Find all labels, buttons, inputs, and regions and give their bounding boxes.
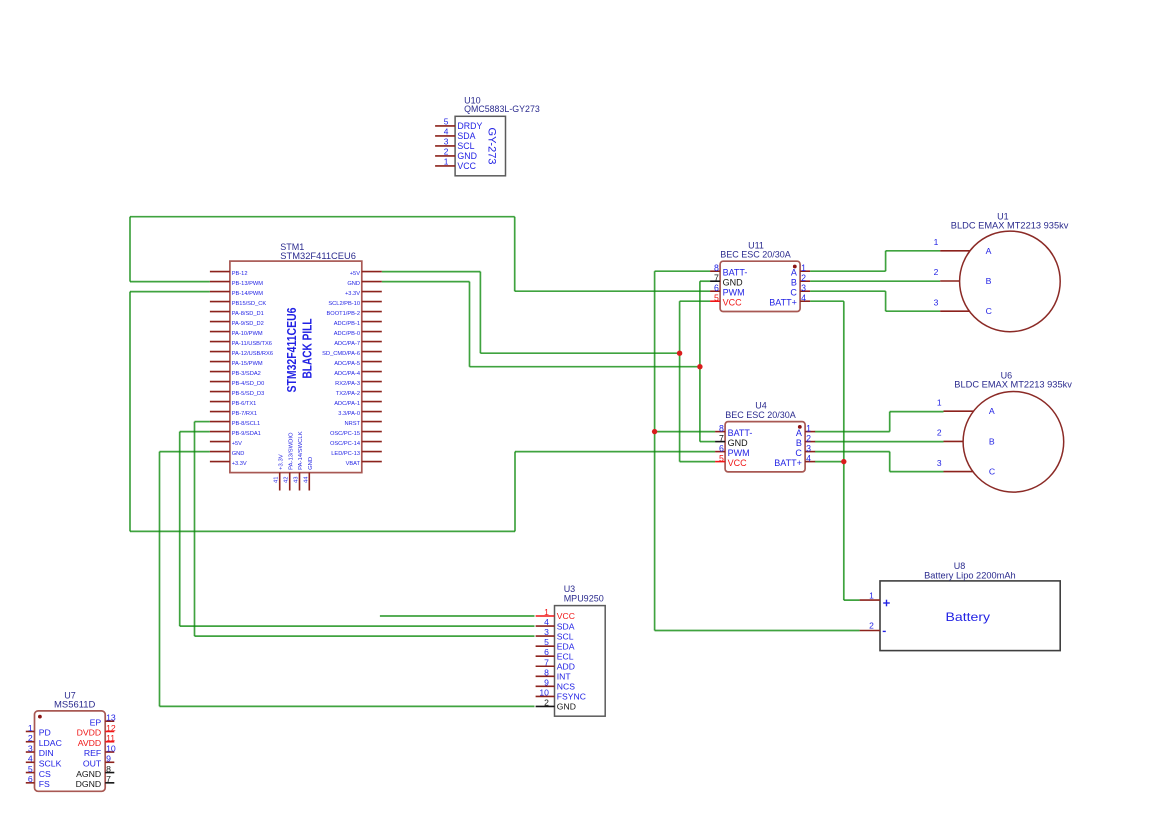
svg-text:DRDY: DRDY: [457, 121, 482, 131]
svg-text:5: 5: [714, 293, 719, 303]
svg-text:OUT: OUT: [83, 758, 102, 768]
svg-text:AVDD: AVDD: [78, 738, 102, 748]
svg-text:6: 6: [28, 774, 33, 784]
svg-text:2: 2: [28, 733, 33, 743]
svg-text:13: 13: [106, 713, 116, 723]
svg-text:1: 1: [869, 591, 874, 601]
svg-text:ADC/PB-0: ADC/PB-0: [334, 331, 360, 337]
svg-text:PA-11/USB/TX6: PA-11/USB/TX6: [232, 341, 272, 347]
svg-text:8: 8: [719, 423, 724, 433]
svg-text:PA-8/SD_D1: PA-8/SD_D1: [232, 311, 264, 317]
svg-text:6: 6: [544, 647, 549, 657]
svg-text:GND: GND: [308, 457, 314, 470]
svg-text:SCL2/PB-10: SCL2/PB-10: [328, 301, 360, 307]
svg-text:2: 2: [801, 273, 806, 283]
svg-text:8: 8: [106, 764, 111, 774]
svg-text:BATT-: BATT-: [723, 267, 748, 277]
svg-text:DVDD: DVDD: [77, 728, 102, 738]
svg-text:BLDC EMAX MT2213 935kv: BLDC EMAX MT2213 935kv: [951, 221, 1069, 231]
svg-text:8: 8: [544, 667, 549, 677]
svg-text:11: 11: [106, 733, 115, 743]
svg-text:GND: GND: [347, 281, 360, 287]
svg-text:1: 1: [544, 607, 549, 617]
svg-text:6: 6: [714, 283, 719, 293]
svg-text:2: 2: [806, 433, 811, 443]
svg-text:5: 5: [28, 764, 33, 774]
svg-text:PB-3/SDA2: PB-3/SDA2: [232, 371, 261, 377]
svg-text:PB-7/RX1: PB-7/RX1: [232, 411, 257, 417]
svg-text:ADC/PA-7: ADC/PA-7: [334, 341, 360, 347]
svg-text:SCL: SCL: [457, 141, 474, 151]
svg-text:FS: FS: [39, 779, 50, 789]
svg-text:7: 7: [719, 433, 724, 443]
svg-text:6: 6: [719, 443, 724, 453]
svg-text:10: 10: [539, 687, 549, 697]
svg-text:3: 3: [934, 297, 939, 307]
svg-text:5: 5: [544, 637, 549, 647]
svg-text:PA-13/SWDIO: PA-13/SWDIO: [288, 432, 294, 470]
svg-text:1: 1: [937, 397, 942, 407]
svg-text:4: 4: [444, 126, 449, 136]
svg-text:DIN: DIN: [39, 748, 54, 758]
svg-text:BLDC EMAX MT2213 935kv: BLDC EMAX MT2213 935kv: [954, 380, 1072, 390]
svg-text:U8: U8: [954, 561, 966, 571]
svg-text:ADC/PA-4: ADC/PA-4: [334, 371, 360, 377]
svg-text:7: 7: [544, 657, 549, 667]
svg-text:5: 5: [719, 453, 724, 463]
svg-text:OSC/PC-15: OSC/PC-15: [330, 431, 360, 437]
svg-text:B: B: [796, 438, 802, 448]
svg-text:QMC5883L-GY273: QMC5883L-GY273: [464, 104, 540, 114]
svg-text:43: 43: [294, 477, 300, 483]
svg-text:PB-14/PWM: PB-14/PWM: [232, 291, 264, 297]
svg-text:PA-14/SWCLK: PA-14/SWCLK: [298, 431, 304, 470]
svg-text:42: 42: [284, 477, 290, 483]
svg-text:7: 7: [714, 273, 719, 283]
svg-text:3: 3: [28, 743, 33, 753]
svg-text:A: A: [989, 406, 995, 416]
svg-text:MS5611D: MS5611D: [54, 700, 96, 710]
svg-text:LED/PC-13: LED/PC-13: [331, 451, 360, 457]
svg-text:9: 9: [106, 754, 111, 764]
svg-text:+5V: +5V: [232, 441, 242, 447]
svg-text:3.3/PA-0: 3.3/PA-0: [338, 411, 360, 417]
svg-text:2: 2: [934, 267, 939, 277]
svg-text:PB-6/TX1: PB-6/TX1: [232, 401, 257, 407]
svg-text:44: 44: [303, 476, 309, 483]
svg-text:A: A: [796, 428, 802, 438]
svg-text:+3.3V: +3.3V: [232, 461, 247, 467]
svg-text:7: 7: [106, 774, 111, 784]
svg-text:SCLK: SCLK: [39, 758, 62, 768]
svg-text:PB-8/SCL1: PB-8/SCL1: [232, 421, 260, 427]
svg-text:4: 4: [544, 617, 549, 627]
svg-text:BLACK PILL: BLACK PILL: [300, 318, 315, 378]
svg-text:C: C: [790, 287, 797, 297]
svg-text:PB-12: PB-12: [232, 271, 248, 277]
svg-text:3: 3: [801, 283, 806, 293]
svg-text:Battery Lipo 2200mAh: Battery Lipo 2200mAh: [924, 571, 1016, 581]
svg-text:REF: REF: [84, 748, 101, 758]
svg-text:1: 1: [934, 237, 939, 247]
svg-text:TX2/PA-2: TX2/PA-2: [336, 391, 360, 397]
svg-text:A: A: [791, 267, 797, 277]
svg-text:SDA: SDA: [457, 131, 475, 141]
svg-text:C: C: [986, 306, 992, 316]
svg-text:STM32F411CEU6: STM32F411CEU6: [280, 251, 356, 261]
svg-text:PB-5/SD_D3: PB-5/SD_D3: [232, 391, 265, 397]
svg-text:SCL: SCL: [557, 631, 574, 641]
svg-text:+3.3V: +3.3V: [278, 454, 284, 470]
svg-text:VCC: VCC: [457, 161, 476, 171]
svg-text:3: 3: [937, 458, 942, 468]
svg-text:1: 1: [801, 263, 806, 273]
svg-text:PWM: PWM: [728, 448, 750, 458]
svg-text:GND: GND: [457, 151, 477, 161]
svg-text:EP: EP: [90, 717, 102, 727]
svg-text:BEC ESC 20/30A: BEC ESC 20/30A: [725, 410, 796, 420]
svg-text:RX2/PA-3: RX2/PA-3: [335, 381, 360, 387]
svg-text:3: 3: [444, 136, 449, 146]
svg-text:PA-12/USB/RX6: PA-12/USB/RX6: [232, 351, 273, 357]
svg-text:PB-9/SDA1: PB-9/SDA1: [232, 431, 261, 437]
svg-text:ADC/PA-5: ADC/PA-5: [334, 361, 360, 367]
svg-text:9: 9: [544, 677, 549, 687]
svg-text:PWM: PWM: [723, 287, 745, 297]
svg-text:ADC/PA-1: ADC/PA-1: [334, 401, 360, 407]
svg-text:EDA: EDA: [557, 641, 575, 651]
svg-text:1: 1: [444, 156, 449, 166]
svg-text:NRST: NRST: [345, 421, 361, 427]
svg-text:3: 3: [806, 443, 811, 453]
svg-text:4: 4: [806, 453, 811, 463]
svg-text:4: 4: [801, 293, 806, 303]
svg-text:GND: GND: [728, 438, 749, 448]
svg-text:PB-13/PWM: PB-13/PWM: [232, 281, 264, 287]
svg-text:PA-10/PWM: PA-10/PWM: [232, 331, 263, 337]
svg-text:41: 41: [274, 477, 280, 483]
svg-text:+3.3V: +3.3V: [345, 291, 360, 297]
svg-text:ADD: ADD: [557, 661, 575, 671]
svg-text:PA-15/PWM: PA-15/PWM: [232, 361, 263, 367]
svg-text:B: B: [791, 277, 797, 287]
svg-text:1: 1: [806, 423, 811, 433]
svg-text:NCS: NCS: [557, 682, 575, 692]
svg-text:10: 10: [106, 743, 116, 753]
svg-text:B: B: [986, 276, 992, 286]
svg-text:STM32F411CEU6: STM32F411CEU6: [284, 308, 299, 393]
svg-text:BEC ESC 20/30A: BEC ESC 20/30A: [720, 250, 791, 260]
svg-text:BATT+: BATT+: [769, 297, 797, 307]
svg-text:A: A: [986, 246, 992, 256]
svg-text:2: 2: [544, 697, 549, 707]
svg-text:ECL: ECL: [557, 651, 574, 661]
svg-text:MPU9250: MPU9250: [564, 593, 604, 603]
svg-text:INT: INT: [557, 672, 572, 682]
svg-text:+5V: +5V: [350, 271, 360, 277]
svg-text:VCC: VCC: [728, 458, 748, 468]
svg-text:LDAC: LDAC: [39, 738, 62, 748]
svg-text:VCC: VCC: [723, 297, 743, 307]
svg-text:SDA: SDA: [557, 621, 575, 631]
svg-text:Battery: Battery: [946, 610, 991, 624]
svg-text:2: 2: [444, 146, 449, 156]
svg-text:3: 3: [544, 627, 549, 637]
svg-text:5: 5: [444, 116, 449, 126]
svg-text:C: C: [989, 467, 995, 477]
svg-text:SD_CMD/PA-6: SD_CMD/PA-6: [322, 351, 360, 357]
svg-text:BOOT1/PB-2: BOOT1/PB-2: [326, 311, 360, 317]
svg-text:CS: CS: [39, 769, 51, 779]
svg-text:GND: GND: [557, 702, 576, 712]
svg-text:PA-9/SD_D2: PA-9/SD_D2: [232, 321, 264, 327]
svg-text:AGND: AGND: [76, 769, 101, 779]
svg-text:PD: PD: [39, 728, 51, 738]
svg-text:B: B: [989, 436, 995, 446]
svg-text:2: 2: [937, 428, 942, 438]
svg-text:BATT-: BATT-: [728, 428, 753, 438]
svg-text:12: 12: [106, 723, 116, 733]
svg-text:GND: GND: [723, 277, 744, 287]
svg-text:C: C: [795, 448, 802, 458]
svg-text:PB-4/SD_D0: PB-4/SD_D0: [232, 381, 265, 387]
svg-text:8: 8: [714, 263, 719, 273]
svg-text:VCC: VCC: [557, 611, 575, 621]
svg-text:4: 4: [28, 754, 33, 764]
svg-text:2: 2: [869, 621, 874, 631]
svg-text:1: 1: [28, 723, 33, 733]
svg-text:ADC/PB-1: ADC/PB-1: [334, 321, 360, 327]
svg-text:BATT+: BATT+: [774, 458, 802, 468]
svg-text:GY-273: GY-273: [486, 128, 498, 165]
svg-text:GND: GND: [232, 451, 245, 457]
svg-text:PB15/SD_CK: PB15/SD_CK: [232, 301, 267, 307]
svg-text:DGND: DGND: [76, 779, 102, 789]
svg-text:OSC/PC-14: OSC/PC-14: [330, 441, 360, 447]
svg-text:VBAT: VBAT: [346, 461, 361, 467]
svg-text:FSYNC: FSYNC: [557, 692, 586, 702]
